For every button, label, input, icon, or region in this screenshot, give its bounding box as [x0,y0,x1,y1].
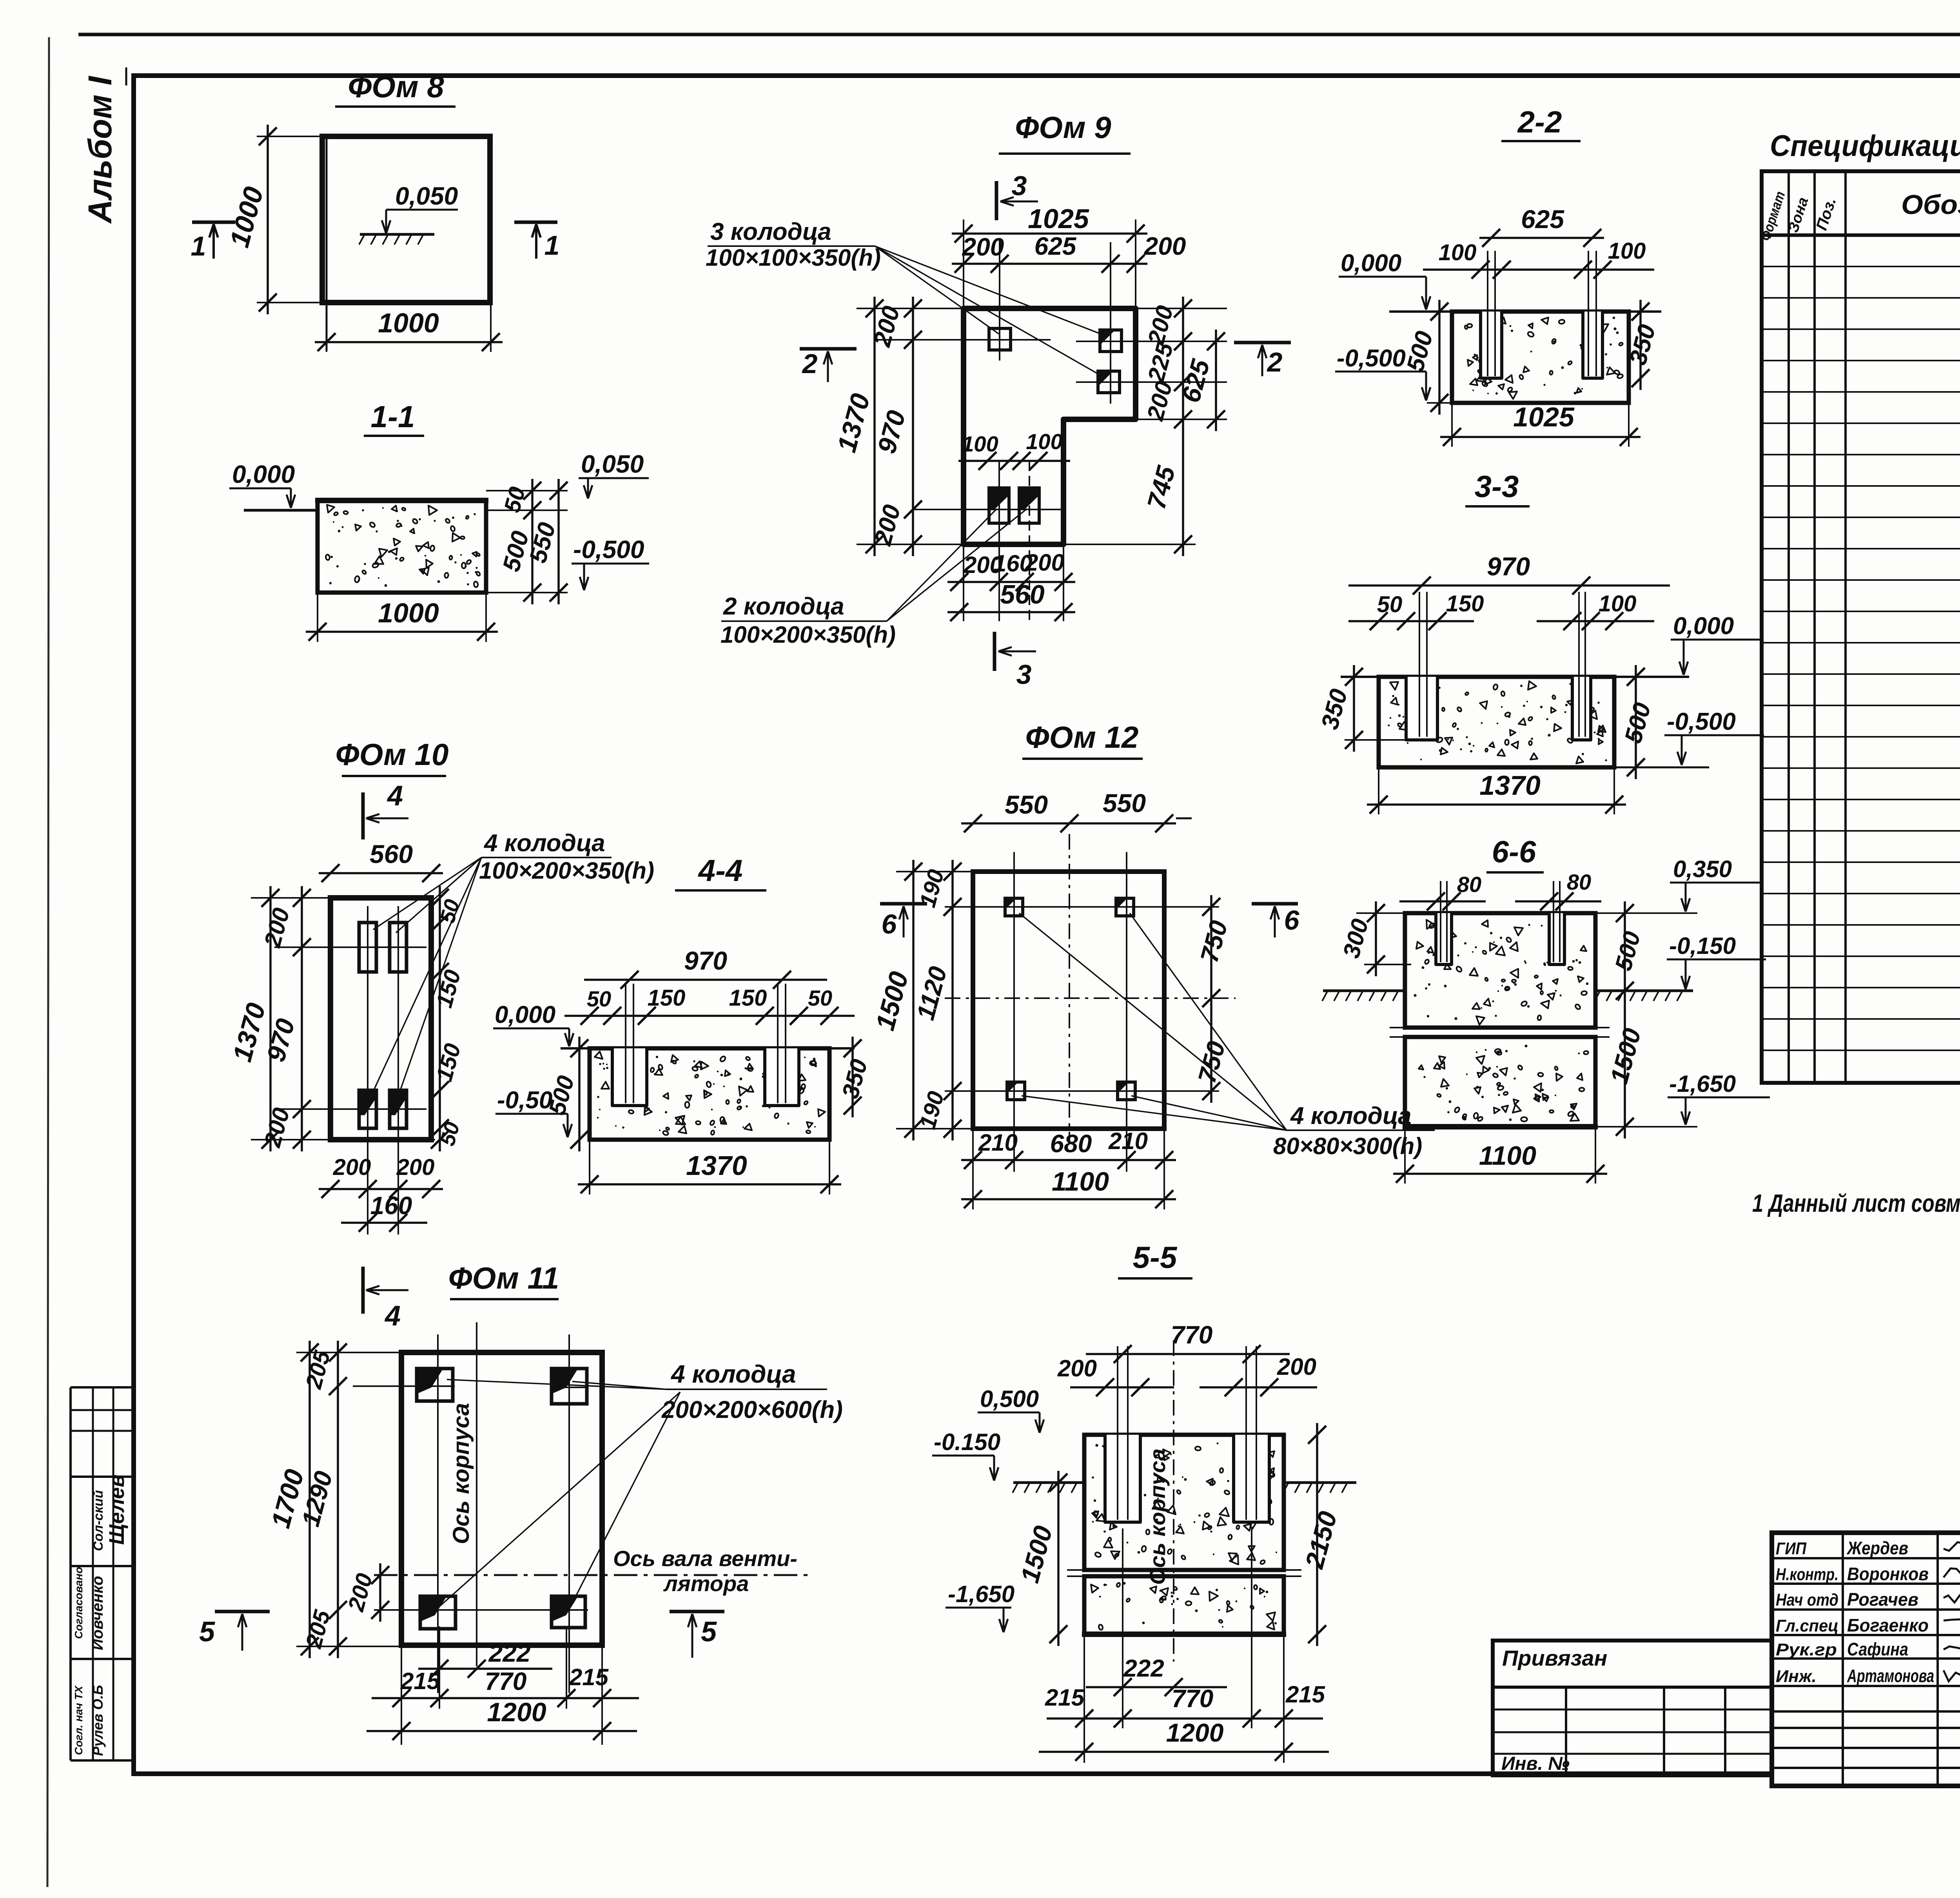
3-3 dim 1370 [1367,803,1626,806]
FOm8 section mark 1 right [514,221,557,224]
FOm11 ext left [296,1352,408,1353]
svg-text:ФОм 9: ФОм 9 [1015,110,1111,145]
svg-text:100: 100 [1599,591,1637,616]
FOm12 dash after dim [1176,818,1192,819]
svg-text:205: 205 [301,1607,335,1651]
svg-text:200×200×600(h): 200×200×600(h) [661,1396,843,1423]
svg-text:80×80×300(h): 80×80×300(h) [1273,1133,1422,1159]
FOm12 section 6 right [1252,902,1298,906]
inner frame bottom [131,1771,1772,1776]
svg-text:0,050: 0,050 [395,182,458,210]
svg-text:Обозначение: Обозначение [1901,189,1960,220]
svg-text:Щелев: Щелев [105,1474,129,1545]
5-5 lower bottom thick [1082,1632,1286,1637]
FOm12 dim 1100 [961,1198,1176,1200]
svg-text:ФОм 12: ФОм 12 [1025,720,1139,754]
svg-text:100×100×350(h): 100×100×350(h) [706,245,881,271]
svg-text:500: 500 [544,1073,579,1118]
6-6 upper outline [1405,913,1595,1028]
svg-text:4: 4 [384,1300,401,1332]
svg-text:1000: 1000 [378,598,439,628]
sig table signatures [1944,1542,1960,1554]
svg-text:200: 200 [1057,1355,1097,1381]
FOm9 dim 1025 [952,232,1147,235]
2-2 dim 100 left [1423,268,1541,271]
3-3 ext 1370 [1378,767,1379,814]
6-6 lower outline [1405,1037,1595,1127]
FOm10 dim chain left [301,886,303,1151]
FOm9 leaders 3 wells [875,246,999,334]
2-2 concrete outline [1452,312,1629,403]
FOm9 right dim chain [1182,297,1184,556]
svg-text:Рогачев: Рогачев [1847,1589,1918,1610]
4-4 dim 350 [851,1037,854,1117]
5-5 ground left [1013,1481,1084,1484]
svg-text:6: 6 [1284,905,1300,935]
left stamp grid [71,1386,134,1389]
svg-text:1 Данный лист совместно с лист: 1 Данный лист совместно с листом кж-6. [1752,1189,1960,1217]
svg-text:-0.150: -0.150 [934,1429,1000,1455]
FOm10 well TR [390,923,407,972]
6-6 bolts [1440,881,1441,962]
FOm10 dim chain right [439,886,441,1151]
6-6 ext 300 [1364,964,1411,965]
svg-text:770: 770 [485,1667,527,1695]
svg-text:215: 215 [1045,1684,1085,1711]
svg-text:0,000: 0,000 [232,460,295,488]
svg-text:-0,500: -0,500 [1337,345,1406,372]
FOm9 dim 200 160 200 [947,581,1075,583]
FOm9 lower well R [1019,488,1039,523]
2-2 dim 350 [1639,300,1642,390]
svg-text:200: 200 [1144,232,1186,260]
svg-text:2150: 2150 [1299,1508,1343,1572]
svg-text:970: 970 [684,946,727,975]
svg-text:350: 350 [837,1057,873,1101]
FOm11 leaders bottom [439,1392,680,1607]
6-6 dim 500 1500 right [1624,901,1626,1138]
FOm9 left dim chain [912,297,914,556]
FOm10 dim 560 [319,872,443,874]
svg-text:205: 205 [301,1348,335,1392]
4-4 dim 500 [578,1037,581,1151]
FOm9 section 3 bottom [993,632,996,671]
2-2 slot right [1583,312,1602,378]
5-5 ext bottom [1083,1634,1085,1763]
1-1 concrete top thick [315,498,488,503]
FOm12 axes vert [1013,852,1015,1172]
svg-text:0,500: 0,500 [980,1386,1039,1412]
3-3 bolt lines [1419,592,1420,737]
FOm11 center axis [476,1322,477,1666]
svg-text:1-1: 1-1 [371,399,415,434]
FOm11 ext bottom [401,1646,402,1745]
FOm10 dim bottom 200 200 [319,1188,443,1190]
svg-text:0,050: 0,050 [581,450,644,478]
svg-text:1200: 1200 [1166,1718,1224,1747]
3-3 dim 500 right [1635,665,1637,779]
svg-text:210: 210 [1108,1128,1148,1154]
svg-text:3: 3 [1016,659,1032,690]
svg-text:Воронков: Воронков [1847,1564,1929,1584]
spec table outer [1762,171,1960,1083]
2-2 top level line [1389,310,1661,313]
2-2 concrete speckle [1613,327,1616,330]
svg-text:Рулев О.Б: Рулев О.Б [90,1685,106,1756]
svg-text:215: 215 [569,1664,609,1690]
svg-text:Спецификация фундаментов под: Спецификация фундаментов под оборудовани… [1770,129,1960,163]
2-2 ext bottom [1427,402,1452,404]
4-4 top level line [561,1047,855,1050]
FOm9 axis top wells [913,339,1051,341]
svg-text:лятора: лятора [663,1571,749,1596]
3-3 ext 350 [1345,739,1407,741]
svg-text:80: 80 [1567,870,1591,894]
FOm8 dim 1000 bottom [315,341,503,343]
svg-text:100×200×350(h): 100×200×350(h) [479,857,654,884]
svg-text:Сафина: Сафина [1847,1639,1908,1659]
svg-text:225: 225 [1143,339,1178,385]
svg-text:1000: 1000 [378,308,439,338]
svg-text:550: 550 [1005,790,1048,819]
6-6 dim 300 left [1375,901,1377,976]
svg-text:215: 215 [1285,1681,1326,1708]
svg-text:50: 50 [587,986,611,1011]
svg-text:5: 5 [701,1616,717,1648]
3-3 bottom ext right [1614,767,1709,769]
5-5 upper speckle [1238,1480,1241,1483]
svg-text:222: 222 [1123,1655,1164,1682]
4-4 slot left [612,1048,647,1106]
FOm11 outline [401,1352,602,1645]
svg-text:Привязан: Привязан [1502,1646,1607,1670]
3-3 top level line [1341,676,1689,678]
FOm11 section 5 right [670,1610,724,1613]
FOm9 dim 200-625-200 [952,263,1147,265]
svg-text:ГИП: ГИП [1776,1539,1807,1558]
svg-text:100: 100 [1026,429,1062,454]
6-6 slot right [1549,913,1564,964]
svg-text:3-3: 3-3 [1475,469,1519,504]
privyazan rows [1493,1686,1772,1689]
6-6 lower bottom thick [1403,1124,1598,1129]
1-1 concrete speckle [390,548,397,555]
FOm9 well MR [1098,371,1120,393]
svg-text:1: 1 [191,231,206,261]
4-4 slot right [765,1048,799,1106]
FOm9 right dim 625 [1215,330,1217,431]
svg-text:-0,500: -0,500 [573,535,644,564]
4-4 dim 1370 [578,1183,841,1186]
svg-text:6-6: 6-6 [1492,834,1536,869]
FOm10 section 4 bottom [361,1267,365,1314]
svg-text:80: 80 [1457,872,1481,897]
2-2 ext 1025 [1451,403,1453,447]
FOm9 ext left top [963,219,964,308]
FOm12 dim bottom 210 680 210 [961,1159,1176,1161]
svg-text:2: 2 [1267,347,1283,377]
privyazan cols [1565,1687,1567,1775]
svg-text:Рук.гр: Рук.гр [1776,1640,1837,1659]
FOm9 section 2 left [800,347,857,351]
svg-text:770: 770 [1172,1684,1214,1713]
3-3 dim 50 150 left [1348,620,1474,622]
svg-text:750: 750 [1195,917,1233,965]
FOm11 dim 1700 [309,1341,311,1658]
svg-text:200: 200 [343,1571,377,1614]
svg-text:200: 200 [396,1155,435,1180]
svg-text:Поз.: Поз. [1813,196,1840,232]
4-4 concrete speckle [686,1095,691,1100]
svg-text:ФОм 10: ФОм 10 [336,737,449,772]
FOm9 axis vert TL [999,239,1000,361]
svg-text:1120: 1120 [911,964,952,1023]
FOm12 mid axis h [945,997,1236,999]
inner frame top [134,73,1960,78]
svg-text:300: 300 [1338,916,1374,961]
spec header bottom [1762,234,1960,237]
svg-text:50: 50 [808,986,832,1010]
svg-text:5: 5 [199,1616,215,1648]
svg-text:150: 150 [648,985,686,1011]
1-1 ground line left [244,509,318,512]
5-5 dim 770 215 bottom [1047,1717,1323,1720]
2-2 dim 625 [1479,237,1604,239]
FOm8 dim 1000 vertical [267,125,269,314]
6-6 ext level bottom [1595,1126,1697,1128]
2-2 dim 1025 [1440,436,1641,438]
svg-text:222: 222 [488,1639,531,1667]
FOm11 well BL [420,1596,456,1629]
FOm8 ground symbol [360,233,434,236]
FOm9 left dim 1370 [873,297,876,556]
svg-text:Альбом I: Альбом I [82,76,118,224]
FOm12 square TR [1116,898,1134,916]
FOm9 section 2 right [1234,341,1291,344]
svg-text:1100: 1100 [1052,1167,1109,1196]
5-5 dim 222 [1086,1686,1227,1688]
svg-text:1370: 1370 [832,390,876,455]
FOm9 left ext [857,308,968,309]
5-5 dim 770 top [1086,1353,1290,1355]
5-5 dim 2150 right [1316,1423,1318,1646]
FOm10 section 4 top [361,792,365,839]
svg-text:Иовченко: Иовченко [89,1576,106,1650]
3-3 dim 100 right [1537,620,1654,622]
FOm12 ext left [896,871,980,872]
FOm12 square TL [1005,898,1023,916]
svg-text:Н.контр.: Н.контр. [1776,1565,1838,1584]
svg-text:150: 150 [431,1041,466,1084]
sheet scan left edge [47,37,49,1887]
5-5 dim 1200 [1039,1751,1329,1753]
1-1 dim 550 line [557,479,560,604]
svg-text:Богаенко: Богаенко [1847,1615,1929,1635]
svg-text:6: 6 [882,909,897,939]
svg-text:Согласовано: Согласовано [73,1567,85,1639]
svg-text:770: 770 [1171,1321,1213,1349]
svg-text:2: 2 [802,348,818,379]
plan FOm8 outline [322,136,490,303]
FOm9 well TL [989,328,1011,350]
5-5 slot right [1234,1435,1269,1522]
svg-text:200: 200 [333,1155,371,1180]
svg-text:970: 970 [1487,552,1530,581]
svg-text:215: 215 [400,1668,441,1694]
6-6 ext level top [1595,912,1697,914]
FOm9 axis vert TR [1110,242,1111,404]
svg-text:200: 200 [962,233,1004,261]
svg-text:ФОм 8: ФОм 8 [348,69,444,104]
FOm12 square BR [1118,1082,1135,1100]
svg-text:0,350: 0,350 [1673,856,1732,882]
5-5 dim 1500 left [1057,1471,1060,1646]
FOm9 lower well L [989,488,1009,523]
sig table cols [1842,1533,1844,1786]
FOm11 section 5 left [215,1610,270,1613]
FOm9 axis lower wells h [913,509,1063,510]
FOm11 dim 200 [379,1563,381,1622]
svg-text:100: 100 [1608,238,1646,264]
FOm11 well TR [552,1369,587,1404]
svg-text:Ось вала венти-: Ось вала венти- [613,1546,797,1571]
svg-text:160: 160 [370,1191,412,1220]
3-3 dim 970 [1348,584,1670,587]
5-5 lower speckle [1161,1588,1168,1595]
svg-text:4 колодца: 4 колодца [670,1360,796,1388]
svg-text:500: 500 [1401,328,1438,375]
svg-text:625: 625 [1034,232,1077,260]
FOm11 dim 770 215 [372,1697,639,1699]
6-6 dim 80 right [1515,900,1601,903]
2-2 dim 500 [1438,300,1441,415]
FOm11 lower wells axis [374,1609,588,1611]
FOm11 dim 1200 [367,1730,637,1732]
svg-text:0,000: 0,000 [495,1001,555,1028]
svg-text:Инв. №: Инв. № [1501,1753,1570,1774]
spec row lines [1762,266,1960,267]
FOm8 dim 1000 bottom ext [326,303,327,352]
6-6 upper speckle [1427,1015,1429,1017]
svg-text:200: 200 [259,905,295,950]
FOm10 well BL [359,1090,376,1128]
5-5 upper outline [1084,1435,1284,1570]
svg-text:625: 625 [1176,356,1215,406]
6-6 ground left [1323,990,1405,992]
svg-text:3 колодца: 3 колодца [710,218,831,245]
FOm12 dim chain left [951,860,954,1140]
svg-text:-0,150: -0,150 [1669,933,1736,959]
svg-text:1370: 1370 [686,1150,747,1181]
2-2 dim 100 right [1541,268,1654,271]
svg-text:100: 100 [962,431,998,456]
4-4 concrete outline [590,1048,829,1140]
svg-text:745: 745 [1142,462,1181,512]
svg-text:200: 200 [1142,379,1178,424]
svg-text:Нач отд: Нач отд [1776,1590,1838,1610]
svg-text:3: 3 [1012,170,1027,201]
svg-text:-1,650: -1,650 [948,1581,1014,1607]
svg-text:100: 100 [1439,240,1477,265]
spec column lines [1788,171,1790,1083]
5-5 dims 200 top [1070,1386,1174,1389]
FOm11 top wells axis [353,1385,455,1387]
FOm8 inner ext line [326,138,328,351]
FOm9 right ext [1129,341,1227,342]
sig table rows [1772,1557,1960,1559]
svg-text:1000: 1000 [224,183,269,250]
1-1 concrete outline [318,500,486,593]
FOm12 axes horiz [945,906,1219,908]
svg-text:50: 50 [1377,592,1403,617]
svg-text:ФОм 11: ФОм 11 [448,1261,559,1295]
2-2 bolt lines right [1588,251,1589,376]
5-5 ground right [1284,1481,1356,1484]
6-6 break lines [1390,1027,1610,1028]
svg-text:-0,500: -0,500 [1667,708,1736,735]
svg-text:2 колодца: 2 колодца [723,593,844,620]
3-3 concrete speckle [1510,730,1515,736]
svg-text:190: 190 [915,1089,949,1132]
svg-text:2-2: 2-2 [1517,105,1562,139]
5-5 slot left [1105,1435,1140,1522]
svg-text:Ось корпуса: Ось корпуса [448,1403,474,1544]
FOm11 wells axes v [437,1334,439,1693]
3-3 concrete outline [1379,677,1614,767]
4-4 bolt lines [625,984,626,1103]
FOm10 outline [330,898,431,1140]
svg-text:5-5: 5-5 [1133,1240,1178,1274]
6-6 dim 1100 [1393,1173,1607,1175]
2-2 bolt lines left [1487,251,1488,376]
svg-text:1025: 1025 [1028,203,1089,234]
svg-text:0,000: 0,000 [1673,613,1734,640]
svg-text:4 колодца: 4 колодца [483,830,605,857]
4-4 dims 50 150 [564,1015,855,1017]
svg-text:Гл.спец: Гл.спец [1776,1616,1838,1635]
svg-text:350: 350 [1316,686,1352,732]
FOm12 dim 750 right [1210,895,1212,1103]
FOm10 axes horiz [274,946,426,948]
FOm11 well BR [552,1596,585,1628]
FOm10 dim 1370 left [269,886,272,1151]
FOm10 well BR [390,1090,407,1128]
FOm8 dim 1000 vertical ext [257,136,337,137]
FOm9 dim 560 [947,611,1075,613]
1-1 dim 50-500 line [531,479,534,604]
svg-text:210: 210 [978,1129,1018,1156]
svg-text:Ось корпуса: Ось корпуса [1145,1448,1170,1585]
FOm12 dim 1500 left [912,860,915,1140]
FOm9 axis lower wells v [998,461,1000,621]
svg-text:Сол-ский: Сол-ский [91,1490,106,1551]
FOm9 leaders 2 wells [887,509,997,621]
6-6 dim 80 left [1399,900,1486,903]
FOm12 ext bottom [972,1129,974,1209]
FOm12 dim 550 550 [961,822,1176,825]
title block outline [1772,1533,1960,1786]
FOm9 dim 100 100 wells [958,460,1070,462]
FOm11 fan axis [374,1574,811,1576]
5-5 lower outline [1084,1576,1284,1634]
svg-text:1025: 1025 [1513,402,1575,432]
svg-text:1500: 1500 [1015,1523,1058,1586]
6-6 slot left [1436,913,1452,964]
svg-text:500: 500 [1619,700,1656,746]
2-2 slot left [1481,312,1502,378]
FOm9 section 3 top [995,181,998,220]
FOm9 ext bottom [963,544,964,621]
